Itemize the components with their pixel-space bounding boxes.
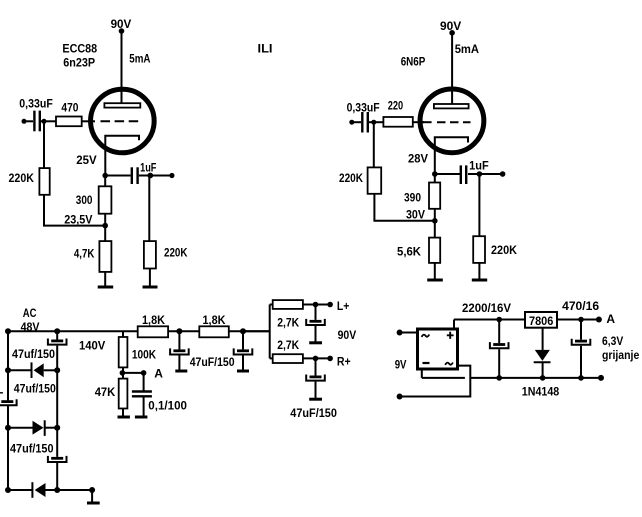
node diode row2 right — [54, 425, 60, 431]
wire C12 to ground — [315, 382, 317, 398]
svg-text:23,5V: 23,5V — [64, 213, 92, 227]
wire diode row3 left — [8, 489, 32, 491]
ground (supply) — [87, 502, 100, 505]
capacitor C12 47uF/150 (R) — [310, 376, 322, 379]
svg-text:30V: 30V — [406, 208, 425, 222]
resistor R12 47K — [119, 379, 128, 409]
svg-text:47uf/150: 47uf/150 — [12, 347, 55, 361]
wire diode row1 left — [8, 369, 32, 371]
node plus rail junction C14 — [578, 317, 584, 323]
wire C10 to ground — [242, 356, 244, 370]
node A junction — [120, 370, 126, 376]
node output terminal (left) — [169, 173, 174, 178]
capacitor C8 0,1/100 — [132, 390, 152, 392]
svg-text:A: A — [606, 312, 615, 326]
wire input to C1 — [24, 120, 33, 122]
node bias junction (right) — [432, 218, 438, 224]
wire cathode to R8 — [434, 174, 436, 183]
wire R15 to L+ — [303, 304, 330, 306]
wire C2 to output — [139, 175, 172, 177]
wire anode supply (left) — [121, 33, 123, 104]
node output junction (left) — [147, 173, 153, 179]
wire R12 to ground — [122, 409, 124, 416]
svg-text:0,33uF: 0,33uF — [19, 97, 53, 111]
svg-text:220K: 220K — [491, 243, 517, 257]
wire junction1 to C9 — [178, 331, 180, 349]
wire C11 to ground — [315, 326, 317, 342]
node 90V terminal (left) — [119, 28, 125, 34]
wire anode supply (right) — [451, 35, 453, 105]
label + (bridge) — [447, 332, 454, 339]
node L+ terminal — [327, 302, 333, 308]
svg-text:1uF: 1uF — [469, 159, 489, 173]
node R+ junction — [313, 356, 319, 362]
svg-text:47K: 47K — [95, 385, 116, 399]
node A dot — [141, 370, 147, 376]
svg-text:L+: L+ — [337, 299, 350, 313]
capacitor C1 0,33uF — [33, 111, 35, 132]
resistor R16 2,7K — [273, 354, 303, 363]
node R+ terminal — [327, 356, 333, 362]
tube V1 envelope — [91, 89, 155, 153]
wire minus rail (right part) — [471, 377, 601, 379]
wire R8 to node — [434, 209, 436, 238]
resistor R1 470 — [56, 117, 82, 127]
node output junction (right) — [477, 171, 483, 177]
wire C4 to output (right) — [468, 173, 503, 175]
resistor R5 220K — [144, 241, 156, 268]
node minus rail junction C14 — [578, 375, 584, 381]
wire left rail upper — [7, 331, 9, 400]
node A output terminal — [596, 317, 602, 323]
svg-text:L: L — [0, 383, 3, 397]
svg-text:2200/16V: 2200/16V — [462, 301, 511, 315]
wire R2 bottom to cathode node — [44, 195, 105, 226]
ground (47K) — [118, 416, 130, 419]
wire grid leak down (right) — [373, 122, 375, 167]
svg-text:220K: 220K — [339, 171, 363, 185]
diode D3 (points left) — [31, 482, 33, 498]
svg-text:ECC88: ECC88 — [62, 42, 97, 56]
ground (C9) — [175, 370, 187, 373]
wire input to C3 — [352, 121, 361, 123]
wire R1 to grid — [82, 120, 95, 122]
wire minus rail (left part) — [422, 377, 465, 379]
wire output to R5 — [148, 176, 150, 242]
resistor R6 220 — [383, 117, 412, 127]
wire R5 to ground — [149, 269, 151, 286]
svg-text:100K: 100K — [132, 348, 156, 362]
svg-text:grijanje: grijanje — [602, 348, 640, 362]
wire cathode to R3 — [104, 176, 106, 187]
wire R10 to ground — [478, 263, 480, 279]
capacitor C13 2200/16V — [493, 343, 505, 346]
svg-text:5mA: 5mA — [129, 52, 150, 66]
svg-text:2,7K: 2,7K — [277, 316, 299, 330]
node ground junction — [89, 487, 95, 493]
svg-text:220K: 220K — [9, 171, 35, 185]
capacitor C11 47uF/150 (L) — [310, 320, 322, 323]
diode D2 (points right) — [33, 421, 44, 435]
wire C14 to minus rail — [580, 346, 582, 378]
wire diode row1 right — [44, 369, 58, 371]
resistor R3 300 — [99, 186, 112, 213]
resistor R2 220K — [39, 168, 49, 195]
wire C1 to R1 — [41, 120, 56, 122]
tube V2 grid (dashed) — [418, 121, 432, 123]
wire to supply ground — [91, 490, 93, 502]
svg-text:300: 300 — [76, 193, 93, 207]
tube V2 envelope — [420, 89, 484, 153]
svg-text:0,1/100: 0,1/100 — [148, 399, 187, 413]
wire output to R10 — [478, 174, 480, 236]
wire C3 to R6 — [369, 121, 383, 123]
diode D1 (points left) — [31, 362, 33, 378]
label ~ (bridge bottom-right) — [445, 362, 453, 364]
node AC input terminal — [5, 328, 11, 334]
ground (right output) — [472, 279, 487, 282]
svg-text:1,8K: 1,8K — [203, 313, 226, 327]
wire C5 to diode row — [56, 346, 58, 428]
ground (right cathode) — [427, 279, 443, 282]
svg-text:5mA: 5mA — [455, 42, 480, 56]
svg-text:220: 220 — [388, 99, 404, 113]
svg-text:6n23P: 6n23P — [63, 56, 95, 70]
wire cathode to C4 — [435, 173, 460, 175]
svg-text:R+: R+ — [337, 355, 351, 369]
resistor R4 4,7K — [99, 241, 111, 272]
wire R7 bottom to cathode node — [374, 194, 434, 221]
capacitor C5 47uf/150 (top right rail) — [51, 340, 63, 343]
svg-text:220K: 220K — [164, 246, 188, 260]
svg-text:90V: 90V — [338, 328, 357, 342]
node input terminal (right) — [349, 120, 354, 125]
resistor R15 2,7K — [273, 300, 303, 309]
capacitor C2 1uF — [131, 167, 133, 184]
node minus rail junction D4 — [540, 375, 546, 381]
wire right rail top — [56, 331, 58, 340]
resistor R14 1,8K — [199, 326, 229, 337]
node minus terminal — [598, 375, 604, 381]
resistor R8 390 — [429, 183, 440, 209]
node diode row1 right — [54, 367, 60, 373]
wire splitter to R15 — [270, 304, 273, 306]
svg-text:6N6P: 6N6P — [401, 55, 426, 69]
wire 9V top input — [400, 332, 417, 334]
tube V1 cathode — [105, 136, 139, 176]
node grid junction (right) — [371, 120, 376, 125]
node L+ junction — [313, 302, 319, 308]
svg-text:9V: 9V — [395, 358, 407, 372]
svg-text:5,6K: 5,6K — [397, 245, 421, 259]
wire C13 to minus rail — [498, 349, 500, 378]
wire bridge minus down — [421, 369, 423, 378]
node diode row3 left — [5, 487, 11, 493]
diode D4 1N4148 (points down) — [535, 350, 550, 361]
ground (left cathode) — [98, 286, 114, 289]
svg-text:47uf/150: 47uf/150 — [14, 382, 56, 396]
svg-text:47uF/150: 47uF/150 — [190, 355, 235, 369]
resistor R9 5,6K — [429, 238, 440, 263]
regulator U1 7806 — [525, 312, 557, 328]
node 90V terminal (right) — [449, 30, 455, 36]
tube V1 grid (dashed) — [101, 120, 139, 122]
svg-text:2,7K: 2,7K — [277, 338, 299, 352]
wire L+ junction to C11 — [315, 305, 317, 320]
wire right rail to C7 — [56, 428, 58, 457]
svg-text:470: 470 — [61, 101, 78, 115]
resistor R13 1,8K — [138, 326, 168, 337]
wire R9 to ground — [434, 263, 436, 279]
node grid junction (left) — [42, 119, 47, 124]
wire cathode to C2 — [105, 175, 130, 177]
ground (C11) — [309, 341, 322, 344]
node filter junction 1 — [176, 328, 182, 334]
wire to C13 — [498, 320, 500, 344]
node cathode (left) — [102, 173, 108, 179]
capacitor C9 47uF/150 — [173, 349, 185, 352]
wire bridge AC2 loop — [400, 366, 471, 397]
wire R3 to node — [104, 214, 106, 241]
resistor R7 220K — [368, 167, 382, 193]
capacitor C7 47uf/150 (bottom right rail) — [51, 457, 63, 460]
svg-text:90V: 90V — [111, 17, 132, 31]
node input terminal (left) — [22, 119, 27, 124]
svg-text:1N4148: 1N4148 — [522, 384, 560, 398]
wire D4 to minus rail — [542, 362, 544, 378]
node minus rail junction C13 — [496, 375, 502, 381]
wire R4 to ground — [104, 272, 106, 286]
svg-text:28V: 28V — [408, 152, 428, 166]
wire R11 to node A — [122, 367, 124, 378]
wire C8 to ground — [143, 396, 145, 416]
svg-text:470/16: 470/16 — [562, 299, 599, 313]
svg-text:90V: 90V — [440, 19, 461, 33]
resistor R10 220K — [473, 236, 485, 263]
node bias junction (left) — [102, 223, 108, 229]
capacitor C10 47uF/150 — [237, 349, 249, 352]
svg-text:ILI: ILI — [258, 42, 273, 56]
node cathode (right) — [432, 171, 438, 177]
capacitor C6 47uf/150 (left rail) — [1, 400, 13, 403]
svg-text:1uF: 1uF — [140, 161, 156, 175]
wire C9 to ground — [178, 356, 180, 370]
wire rail to R11 — [122, 331, 124, 337]
wire HV top rail — [8, 330, 270, 332]
node diode row1 left — [5, 367, 11, 373]
ground (C10) — [237, 370, 249, 373]
label ~ (bridge top-left) — [422, 334, 430, 336]
wire node A to C8 — [143, 373, 145, 392]
svg-text:6,3V: 6,3V — [602, 334, 623, 348]
tube V1 anode plate — [104, 103, 140, 107]
svg-text:AC: AC — [23, 306, 37, 320]
node diode row2 left — [5, 425, 11, 431]
capacitor C14 470/16 — [575, 340, 587, 343]
wire rail to splitter — [243, 305, 270, 359]
tube V2 anode plate — [434, 104, 469, 108]
bridge rectifier B1 — [418, 329, 458, 369]
ground (C8) — [135, 416, 148, 419]
node plus rail junction C13 — [496, 317, 502, 323]
wire R6 to grid — [413, 121, 424, 123]
node filter junction 2 — [240, 328, 246, 334]
wire diode row3 right — [46, 489, 93, 491]
node rail junction — [54, 328, 60, 334]
capacitor C4 1uF — [460, 165, 462, 184]
svg-text:47uf/150: 47uf/150 — [10, 442, 54, 456]
wire 7806 gnd down — [542, 328, 544, 350]
wire to C14 — [580, 320, 582, 340]
ground (C12) — [309, 398, 322, 401]
wire node A right — [122, 372, 143, 374]
wire R+ junction to C12 — [315, 358, 317, 375]
ground (left output) — [143, 286, 158, 289]
label - (bridge) — [423, 362, 430, 364]
resistor R11 100K — [119, 337, 128, 367]
svg-text:140V: 140V — [79, 339, 105, 353]
svg-text:25V: 25V — [76, 153, 96, 167]
tube V2 cathode — [435, 137, 468, 174]
svg-text:A: A — [154, 367, 163, 381]
wire grid leak down — [43, 121, 45, 168]
wire junction2 to C10 — [242, 331, 244, 349]
wire heater plus rail — [454, 319, 599, 321]
wire diode row2 right — [45, 427, 58, 429]
svg-text:47uF/150: 47uF/150 — [290, 406, 337, 420]
svg-text:1,8K: 1,8K — [142, 313, 165, 327]
wire bridge plus up — [453, 320, 455, 330]
wire C7 to diode row3 — [56, 463, 58, 490]
svg-text:390: 390 — [404, 191, 421, 205]
node 9V input bottom terminal — [397, 394, 403, 400]
capacitor C3 0,33uF — [361, 112, 363, 133]
wire left rail lower — [7, 406, 9, 490]
svg-text:4,7K: 4,7K — [74, 247, 95, 261]
node 9V input top terminal — [397, 330, 403, 336]
wire splitter to R16 — [270, 357, 273, 359]
wire R16 to R+ — [303, 357, 330, 359]
node diode row3 right — [54, 487, 60, 493]
svg-text:7806: 7806 — [529, 314, 554, 328]
node output terminal (right) — [500, 171, 506, 177]
wire diode row2 left — [8, 427, 33, 429]
